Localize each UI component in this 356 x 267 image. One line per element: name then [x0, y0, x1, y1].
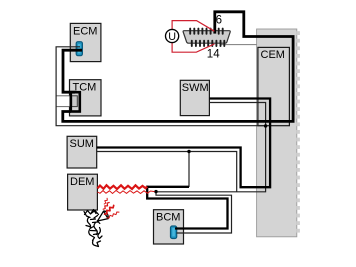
ECU box CEM	[258, 47, 290, 125]
TCM connector thick shell	[71, 92, 80, 111]
svg-text:SWM: SWM	[182, 82, 209, 94]
thin wire: SUM companion	[97, 152, 237, 192]
faulty wire: thin red zigzag DEM	[97, 191, 154, 194]
noise icon (hand making interference at connector)	[84, 210, 108, 247]
voltmeter U	[166, 29, 179, 43]
thick wire: DEM junction to node B	[147, 186, 189, 188]
TCM inline connector: gray inner square	[72, 96, 78, 107]
svg-text:14: 14	[207, 48, 220, 60]
thin wire: node B drop	[188, 152, 190, 188]
ECU box TCM	[70, 80, 102, 116]
data link connector (DLC) body	[183, 31, 230, 44]
BCM blue connector	[171, 226, 177, 239]
junction node C	[264, 124, 267, 127]
thick wire: SWM - SUM run	[97, 99, 270, 188]
thin wire: SWM down to DEM row	[156, 103, 266, 192]
ECU box BCM	[154, 210, 184, 244]
svg-text:DEM: DEM	[70, 176, 94, 188]
junction node B	[187, 150, 190, 153]
DLC pins row 2	[192, 41, 225, 46]
DLC pins row 1	[190, 29, 223, 34]
faulty wire: thick red zigzag DEM	[97, 185, 147, 189]
thick wire: DEM junction to BCM	[147, 186, 227, 229]
svg-text:CEM: CEM	[261, 49, 285, 61]
svg-text:SUM: SUM	[70, 138, 94, 150]
thick wire: ECM to TCM connector	[63, 50, 82, 92]
thick wire: TCM out, main run to DLC pin 6	[63, 12, 293, 122]
ECU box SUM	[67, 136, 97, 168]
ECU box DEM	[68, 174, 98, 210]
wire tip into DLC pin 6	[213, 30, 216, 34]
svg-text:ECM: ECM	[73, 25, 97, 37]
voltmeter red probe leads	[172, 21, 214, 32]
junction node A	[154, 190, 157, 193]
wire pin14 to CEM	[220, 44, 257, 46]
noise squiggles red	[103, 198, 119, 218]
svg-text:U: U	[168, 31, 176, 43]
svg-text:6: 6	[216, 15, 222, 27]
ECM blue connector	[76, 42, 82, 56]
thin wire: BCM companion loop	[156, 192, 232, 233]
svg-text:BCM: BCM	[156, 212, 180, 224]
CEM power panel (torn right edge)	[257, 29, 297, 237]
ECU box SWM	[180, 80, 209, 115]
thin wire: ECM pair left/down/long bottom run	[56, 47, 266, 126]
TCM inline connector: white plug half	[56, 96, 72, 107]
ECU box ECM	[70, 23, 101, 61]
